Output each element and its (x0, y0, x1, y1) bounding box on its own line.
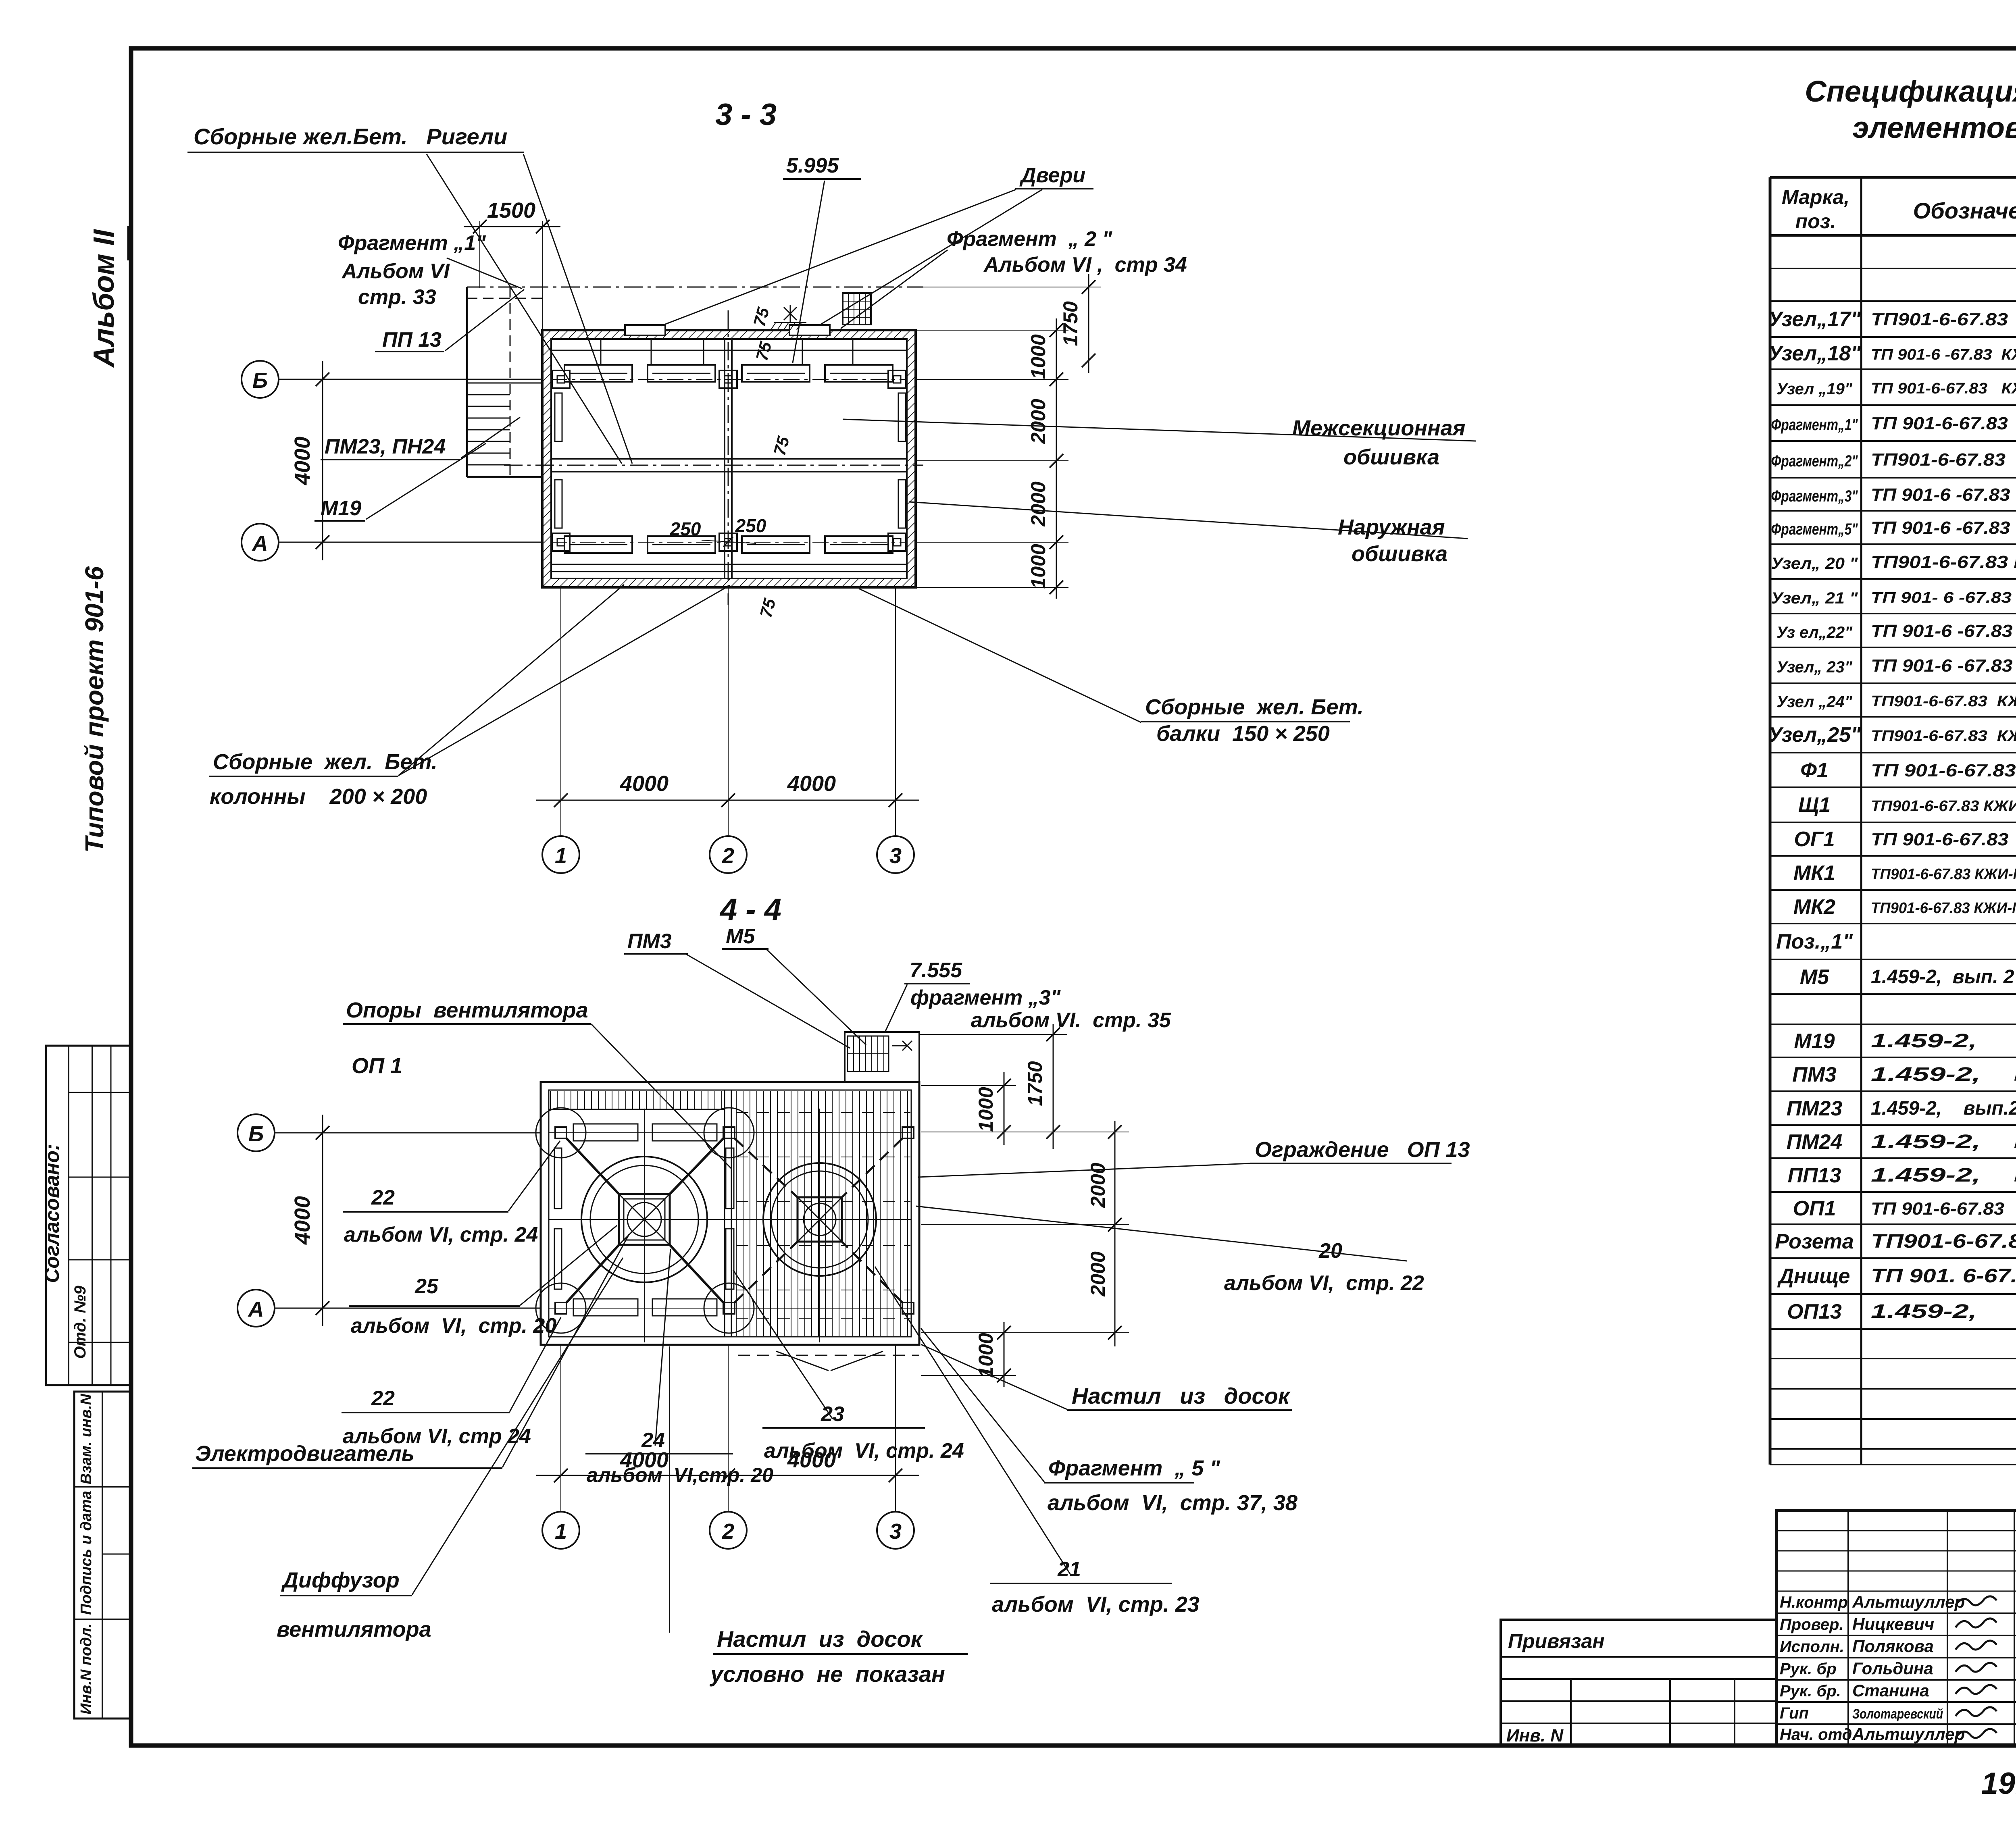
svg-text:4 - 4: 4 - 4 (719, 893, 781, 927)
svg-text:Альтшуллер: Альтшуллер (1852, 1592, 1965, 1611)
svg-text:Ограждение ОП 13: Ограждение ОП 13 (1255, 1138, 1470, 1162)
svg-text:1000: 1000 (1027, 334, 1050, 379)
svg-text:2000: 2000 (1027, 481, 1050, 526)
svg-text:Настил из досок: Настил из досок (717, 1626, 923, 1652)
svg-text:Согласовано:: Согласовано: (41, 1144, 63, 1283)
svg-text:МК2: МК2 (1793, 895, 1835, 919)
svg-text:Рук. бр.: Рук. бр. (1780, 1682, 1841, 1700)
svg-text:ПП13: ПП13 (1788, 1164, 1841, 1187)
svg-text:Двери: Двери (1019, 164, 1085, 187)
svg-text:Сборные жел. Бет.: Сборные жел. Бет. (1145, 695, 1364, 719)
svg-text:Узел „19": Узел „19" (1776, 380, 1853, 398)
svg-text:1.459-2, вып. 2: 1.459-2, вып. 2 (1871, 966, 2014, 988)
svg-text:МК1: МК1 (1793, 861, 1835, 885)
svg-text:ОП1: ОП1 (1793, 1197, 1836, 1220)
svg-text:Подпись и дата: Подпись и дата (78, 1491, 95, 1615)
svg-text:альбом VI, стр. 22: альбом VI, стр. 22 (1224, 1271, 1424, 1295)
svg-text:обшивка: обшивка (1352, 542, 1447, 566)
svg-text:М19: М19 (321, 497, 361, 520)
svg-text:Инв. N: Инв. N (1506, 1726, 1564, 1746)
svg-text:ТП 901-6 -67.83 КЖИ-ФР3: ТП 901-6 -67.83 КЖИ-ФР3 (1871, 485, 2016, 505)
svg-text:2: 2 (722, 1519, 734, 1544)
svg-text:1.459-2, вып.2: 1.459-2, вып.2 (1871, 1098, 2016, 1119)
svg-text:2000: 2000 (1027, 399, 1050, 444)
svg-text:Розета: Розета (1775, 1230, 1854, 1253)
svg-text:ТП901-6-67.83 КЖИ-У24,У25: ТП901-6-67.83 КЖИ-У24,У25 (1871, 728, 2016, 745)
svg-text:А: А (248, 1297, 264, 1321)
svg-text:ПМ3: ПМ3 (1792, 1063, 1837, 1086)
svg-text:Днище: Днище (1777, 1265, 1850, 1288)
svg-text:4000: 4000 (290, 1196, 314, 1245)
svg-text:ТП 901- 6 -67.83 КЖИ- У21: ТП 901- 6 -67.83 КЖИ- У21 (1871, 589, 2016, 606)
svg-text:ТП 901-6-67.83 КЖИ- Ф1: ТП 901-6-67.83 КЖИ- Ф1 (1871, 761, 2016, 780)
svg-text:Узел„17": Узел„17" (1768, 308, 1861, 331)
svg-text:Электродвигатель: Электродвигатель (195, 1442, 414, 1466)
svg-text:Б: Б (248, 1122, 264, 1146)
svg-text:М19: М19 (1794, 1030, 1835, 1053)
svg-text:ТП 901-6 -67.83 КЖИ-ФР5: ТП 901-6 -67.83 КЖИ-ФР5 (1871, 518, 2016, 538)
svg-text:ТП901-6-67.83 КЖИ-ФР2: ТП901-6-67.83 КЖИ-ФР2 (1871, 450, 2016, 470)
svg-text:1500: 1500 (487, 198, 535, 223)
svg-text:ОГ1: ОГ1 (1794, 828, 1835, 851)
svg-text:ТП901-6-67.83 КЖ-8: ТП901-6-67.83 КЖ-8 (1871, 1231, 2016, 1252)
svg-text:альбом VI,стр. 20: альбом VI,стр. 20 (587, 1464, 773, 1486)
svg-text:Узел„ 20 ": Узел„ 20 " (1771, 555, 1858, 572)
svg-text:Обозначение: Обозначение (1913, 198, 2016, 223)
svg-text:1: 1 (555, 1519, 567, 1544)
svg-text:Уз ел„22": Уз ел„22" (1776, 624, 1853, 641)
svg-text:3 - 3: 3 - 3 (715, 98, 777, 132)
svg-text:ОП 1: ОП 1 (352, 1054, 402, 1078)
svg-text:ТП901-6-67.83 КЖИ-У17: ТП901-6-67.83 КЖИ-У17 (1871, 310, 2016, 329)
svg-text:19156 - 02 15: 19156 - 02 15 (1981, 1766, 2016, 1801)
svg-text:Альбом VI: Альбом VI (341, 260, 450, 283)
svg-text:Поз.„1": Поз.„1" (1776, 930, 1853, 953)
svg-text:Сборные жел.Бет. Ригели: Сборные жел.Бет. Ригели (194, 124, 507, 149)
svg-text:Опоры вентилятора: Опоры вентилятора (346, 998, 588, 1022)
svg-text:Провер.: Провер. (1780, 1616, 1844, 1633)
svg-text:ПМ23: ПМ23 (1787, 1097, 1843, 1120)
svg-text:Ф1: Ф1 (1800, 759, 1829, 782)
svg-text:1.459-2, вып. 2: 1.459-2, вып. 2 (1871, 1064, 2016, 1085)
svg-text:альбом VI, стр. 20: альбом VI, стр. 20 (351, 1314, 556, 1338)
svg-text:1.459-2, вып. 2: 1.459-2, вып. 2 (1871, 1030, 2016, 1052)
svg-text:Фрагмент „ 5 ": Фрагмент „ 5 " (1048, 1456, 1220, 1480)
svg-text:Фрагмент „1": Фрагмент „1" (338, 231, 486, 255)
svg-text:колонны 200 × 200: колонны 200 × 200 (210, 784, 427, 809)
svg-text:25: 25 (414, 1275, 439, 1298)
svg-text:Ницкевич: Ницкевич (1852, 1615, 1934, 1633)
svg-text:Н.контр: Н.контр (1780, 1594, 1848, 1611)
svg-text:1000: 1000 (975, 1333, 997, 1377)
svg-text:ТП 901-6-67.83 КЖИ-ОП1: ТП 901-6-67.83 КЖИ-ОП1 (1871, 1199, 2016, 1219)
svg-text:условно не показан: условно не показан (709, 1661, 945, 1687)
svg-text:2: 2 (722, 844, 734, 868)
svg-text:Узел„18": Узел„18" (1768, 342, 1861, 365)
svg-text:Альбом II: Альбом II (88, 229, 120, 368)
svg-text:Фрагмент „ 2 ": Фрагмент „ 2 " (947, 227, 1112, 251)
svg-text:ПМ24: ПМ24 (1787, 1130, 1843, 1154)
svg-text:Альтшуллер: Альтшуллер (1852, 1725, 1965, 1744)
svg-text:альбом VI, стр. 37, 38: альбом VI, стр. 37, 38 (1048, 1491, 1297, 1515)
svg-text:Гольдина: Гольдина (1852, 1659, 1933, 1678)
svg-text:75: 75 (752, 339, 775, 363)
svg-text:Фрагмент„5": Фрагмент„5" (1771, 520, 1858, 538)
svg-text:3: 3 (889, 844, 902, 868)
svg-text:24: 24 (641, 1429, 665, 1452)
svg-text:Исполн.: Исполн. (1780, 1638, 1844, 1656)
svg-text:75: 75 (756, 596, 779, 620)
svg-text:Наружная: Наружная (1338, 515, 1445, 539)
svg-text:1000: 1000 (1027, 544, 1050, 589)
svg-text:ТП 901-6 -67.83 КЖИ-У23: ТП 901-6 -67.83 КЖИ-У23 (1871, 656, 2016, 676)
svg-text:75: 75 (750, 305, 773, 329)
svg-text:М5: М5 (726, 925, 755, 948)
svg-text:Узел„25": Узел„25" (1768, 723, 1861, 747)
svg-text:Отд. №9: Отд. №9 (71, 1286, 89, 1359)
svg-text:4000: 4000 (620, 772, 669, 796)
svg-text:22: 22 (371, 1186, 395, 1209)
svg-text:250: 250 (670, 518, 701, 539)
svg-text:альбом VI, стр. 24: альбом VI, стр. 24 (764, 1439, 964, 1463)
svg-text:поз.: поз. (1795, 210, 1836, 233)
svg-text:7.555: 7.555 (910, 959, 962, 982)
svg-text:5.995: 5.995 (786, 154, 839, 177)
svg-text:Марка,: Марка, (1782, 186, 1849, 208)
svg-text:вентилятора: вентилятора (277, 1617, 431, 1642)
svg-text:1.459-2, вып 2: 1.459-2, вып 2 (1871, 1301, 2016, 1322)
svg-text:1000: 1000 (975, 1087, 997, 1132)
svg-text:20: 20 (1318, 1239, 1342, 1263)
svg-text:Альбом VI , стр 34: Альбом VI , стр 34 (983, 253, 1187, 277)
svg-text:ТП 901-6-67.83 КЖИ-ОГ1: ТП 901-6-67.83 КЖИ-ОГ1 (1871, 830, 2016, 849)
svg-text:75: 75 (770, 434, 793, 458)
svg-text:ТП 901-6 -67.83 КЖИ-У18,У19: ТП 901-6 -67.83 КЖИ-У18,У19 (1871, 346, 2016, 363)
svg-text:ТП901-6-67.83 КЖИ-Щ1,Щ2,Щ3: ТП901-6-67.83 КЖИ-Щ1,Щ2,Щ3 (1871, 798, 2016, 815)
svg-text:балки 150 × 250: балки 150 × 250 (1156, 722, 1330, 746)
svg-text:ТП 901-6 -67.83 КЖИ-У22: ТП 901-6 -67.83 КЖИ-У22 (1871, 621, 2016, 641)
svg-text:21: 21 (1057, 1558, 1081, 1581)
svg-text:ТП901-6-67.83 КЖИ-МК1,МК2,НК3: ТП901-6-67.83 КЖИ-МК1,МК2,НК3 (1871, 866, 2016, 883)
svg-text:Привязан: Привязан (1508, 1630, 1605, 1652)
svg-text:Фрагмент„2": Фрагмент„2" (1771, 452, 1858, 470)
svg-text:Узел „24": Узел „24" (1776, 693, 1853, 711)
svg-text:1750: 1750 (1024, 1061, 1046, 1106)
svg-text:Станина: Станина (1852, 1681, 1929, 1700)
svg-text:3: 3 (889, 1519, 902, 1544)
svg-text:Узел„ 23": Узел„ 23" (1776, 658, 1853, 676)
svg-text:Типовой проект 901-6: Типовой проект 901-6 (80, 566, 109, 853)
svg-text:Настил из досок: Настил из досок (1072, 1383, 1291, 1409)
svg-text:альбом VI. стр. 35: альбом VI. стр. 35 (971, 1009, 1171, 1032)
svg-text:Фрагмент„3": Фрагмент„3" (1771, 487, 1858, 505)
svg-text:1.459-2, вып. 2: 1.459-2, вып. 2 (1871, 1131, 2016, 1153)
svg-text:Гип: Гип (1780, 1704, 1809, 1722)
svg-text:А: А (252, 531, 268, 556)
svg-text:ПМ3: ПМ3 (627, 930, 672, 953)
svg-text:ТП 901. 6-67.83 КЖ-6: ТП 901. 6-67.83 КЖ-6 (1871, 1265, 2016, 1287)
svg-text:ПП 13: ПП 13 (382, 328, 442, 352)
svg-text:элементов на л.л. КЖ-3; К: элементов на л.л. КЖ-3; КЖ-4. (1852, 111, 2016, 144)
svg-text:фрагмент „3": фрагмент „3" (910, 986, 1061, 1009)
svg-text:Фрагмент„1": Фрагмент„1" (1771, 416, 1858, 434)
svg-text:Спецификация к схемам распол: Спецификация к схемам расположения (1805, 75, 2016, 108)
svg-text:ТП 901-6-67.83 КЖИ-ФР1: ТП 901-6-67.83 КЖИ-ФР1 (1871, 414, 2016, 433)
svg-text:1.459-2, вып. 2: 1.459-2, вып. 2 (1871, 1165, 2016, 1186)
svg-text:ПМ23, ПН24: ПМ23, ПН24 (325, 435, 446, 458)
svg-text:Щ1: Щ1 (1798, 793, 1831, 817)
svg-text:Б: Б (252, 368, 268, 393)
svg-text:Инв.N подл.: Инв.N подл. (78, 1623, 95, 1714)
svg-text:Полякова: Полякова (1852, 1637, 1934, 1656)
svg-text:4000: 4000 (787, 772, 836, 796)
svg-text:Взам. инв.N: Взам. инв.N (78, 1393, 95, 1484)
svg-text:альбом VI, стр. 24: альбом VI, стр. 24 (344, 1223, 538, 1246)
svg-text:ТП901-6-67.83 КЖИ-У24,У25: ТП901-6-67.83 КЖИ-У24,У25 (1871, 693, 2016, 710)
svg-text:ТП 901-6-67.83 КЖИ-У18,У19: ТП 901-6-67.83 КЖИ-У18,У19 (1871, 380, 2016, 397)
svg-text:4000: 4000 (290, 437, 314, 485)
svg-text:Нач. отд.: Нач. отд. (1780, 1726, 1856, 1744)
svg-text:1750: 1750 (1059, 301, 1082, 346)
svg-text:стр. 33: стр. 33 (358, 285, 436, 309)
svg-text:2000: 2000 (1087, 1251, 1109, 1296)
svg-text:ТП901-6-67.83 КЖИ- У20: ТП901-6-67.83 КЖИ- У20 (1871, 552, 2016, 572)
svg-text:М5: М5 (1800, 965, 1829, 989)
svg-text:ОП13: ОП13 (1787, 1300, 1842, 1323)
svg-text:Диффузор: Диффузор (281, 1568, 400, 1592)
svg-text:1: 1 (555, 844, 567, 868)
svg-text:22: 22 (371, 1387, 395, 1410)
svg-text:Рук. бр: Рук. бр (1780, 1660, 1837, 1678)
svg-text:альбом VI, стр. 23: альбом VI, стр. 23 (992, 1592, 1200, 1617)
svg-text:Межсекционная: Межсекционная (1292, 416, 1465, 440)
svg-text:Узел„ 21 ": Узел„ 21 " (1771, 589, 1858, 607)
svg-text:ТП901-6-67.83 КЖИ-МК1,МК2,МК3: ТП901-6-67.83 КЖИ-МК1,МК2,МК3 (1871, 900, 2016, 917)
svg-text:обшивка: обшивка (1343, 445, 1439, 469)
svg-text:Золотаревский: Золотаревский (1852, 1706, 1943, 1722)
svg-text:250: 250 (735, 515, 766, 536)
